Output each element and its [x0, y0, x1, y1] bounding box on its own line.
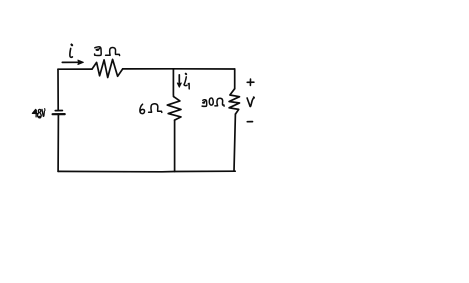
- polarity + (V across R3): [247, 79, 254, 85]
- resistor R1 3ohm (top): [92, 59, 123, 77]
- label 48V (battery value): [32, 109, 45, 119]
- label 30ohm (R3 value): [202, 98, 224, 106]
- resistor R2 6ohm (middle): [167, 97, 181, 121]
- wire left vertical lower: [57, 114, 59, 171]
- wire left vertical upper: [57, 69, 59, 110]
- wire right vertical upper: [234, 69, 236, 89]
- polarity - (V across R3): [247, 121, 252, 123]
- battery V1: [53, 111, 65, 115]
- label 3ohm (R1 value): [95, 47, 120, 56]
- current arrow i (top): [62, 60, 83, 64]
- wire right vertical lower: [234, 114, 235, 171]
- wire bottom: [58, 170, 235, 173]
- current arrow i1 (middle): [177, 75, 181, 87]
- label i (current): [70, 45, 73, 58]
- resistor R3 30ohm (right): [229, 89, 239, 114]
- label V (voltage across R3): [247, 97, 254, 107]
- wire top-left segment: [58, 68, 92, 70]
- wire middle vertical lower: [174, 120, 176, 171]
- node top-middle junction: [172, 68, 174, 71]
- label 6ohm (R2 value): [140, 104, 162, 114]
- label i1 (current): [184, 74, 189, 89]
- wire top-right segment: [123, 68, 235, 70]
- wire middle vertical upper: [172, 69, 174, 97]
